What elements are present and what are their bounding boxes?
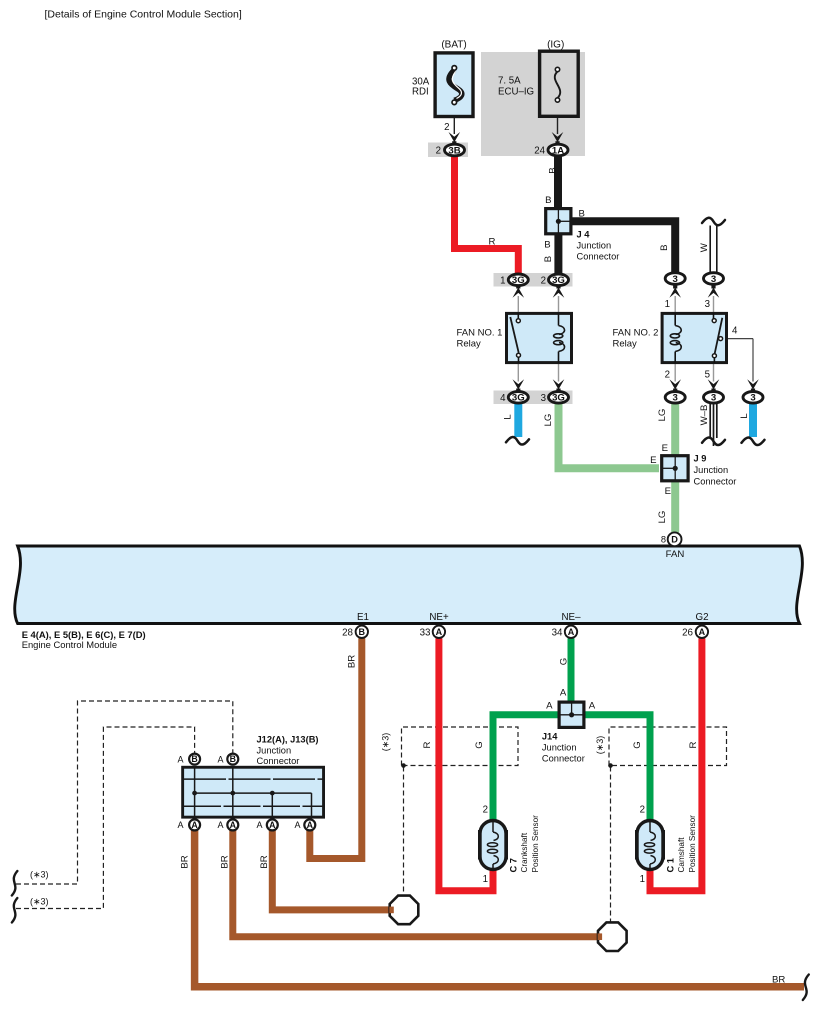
- svg-text:2: 2: [665, 370, 670, 381]
- svg-text:Junction: Junction: [694, 465, 729, 475]
- svg-text:R: R: [489, 237, 496, 248]
- svg-text:2: 2: [444, 122, 449, 133]
- svg-text:2: 2: [541, 276, 546, 287]
- svg-text:33: 33: [420, 628, 431, 639]
- svg-text:(IG): (IG): [547, 40, 564, 51]
- svg-text:Connector: Connector: [542, 754, 585, 764]
- svg-text:G: G: [632, 741, 643, 748]
- svg-text:BR: BR: [772, 974, 785, 985]
- svg-text:B: B: [545, 195, 551, 206]
- svg-text:BR: BR: [179, 855, 190, 868]
- svg-text:(∗3): (∗3): [30, 870, 49, 880]
- svg-text:BR: BR: [347, 655, 358, 668]
- svg-text:Position Sensor: Position Sensor: [688, 815, 697, 873]
- svg-text:3: 3: [711, 274, 716, 285]
- svg-text:B: B: [548, 167, 559, 173]
- svg-text:3: 3: [750, 393, 755, 404]
- svg-text:Junction: Junction: [542, 743, 577, 753]
- svg-text:C 1: C 1: [666, 858, 676, 872]
- svg-text:Relay: Relay: [613, 339, 638, 350]
- svg-text:L: L: [739, 413, 750, 419]
- svg-text:3B: 3B: [448, 145, 460, 156]
- svg-text:[Details of Engine Control Mod: [Details of Engine Control Module Sectio…: [45, 9, 242, 21]
- svg-text:3: 3: [673, 393, 678, 404]
- svg-text:D: D: [671, 534, 678, 544]
- svg-text:FAN NO. 2: FAN NO. 2: [613, 328, 659, 339]
- svg-text:A: A: [177, 820, 183, 830]
- svg-text:Position Sensor: Position Sensor: [531, 815, 540, 873]
- svg-text:BR: BR: [259, 855, 270, 868]
- svg-text:Crankshaft: Crankshaft: [520, 832, 529, 872]
- svg-text:5: 5: [705, 370, 710, 381]
- svg-text:28: 28: [342, 628, 353, 639]
- svg-text:3: 3: [705, 299, 710, 310]
- svg-text:E: E: [662, 443, 668, 454]
- svg-text:BR: BR: [220, 855, 231, 868]
- svg-text:3: 3: [711, 393, 716, 404]
- svg-text:24: 24: [534, 145, 545, 156]
- svg-text:G: G: [559, 658, 570, 665]
- svg-text:3G: 3G: [512, 393, 525, 404]
- svg-text:B: B: [230, 754, 236, 764]
- svg-text:4: 4: [500, 393, 506, 404]
- svg-text:(∗3): (∗3): [30, 897, 49, 907]
- svg-text:Connector: Connector: [257, 756, 300, 766]
- svg-text:A: A: [230, 820, 237, 830]
- svg-text:2: 2: [483, 805, 488, 816]
- svg-text:Junction: Junction: [577, 241, 612, 251]
- svg-text:G2: G2: [695, 612, 708, 623]
- svg-text:A: A: [191, 820, 198, 830]
- svg-text:J14: J14: [542, 732, 558, 742]
- svg-text:4: 4: [732, 326, 738, 337]
- svg-text:2: 2: [640, 805, 645, 816]
- svg-text:B: B: [659, 244, 670, 250]
- svg-text:NE–: NE–: [561, 612, 581, 623]
- svg-text:A: A: [436, 627, 443, 637]
- svg-text:26: 26: [682, 628, 693, 639]
- svg-text:A: A: [568, 627, 575, 637]
- svg-text:A: A: [217, 820, 223, 830]
- svg-text:1: 1: [640, 874, 645, 885]
- svg-text:G: G: [474, 741, 485, 748]
- svg-text:A: A: [699, 627, 706, 637]
- svg-text:A: A: [217, 754, 223, 764]
- svg-text:7. 5A: 7. 5A: [498, 76, 521, 87]
- svg-text:Engine Control Module: Engine Control Module: [22, 639, 117, 650]
- svg-text:J 9: J 9: [694, 454, 707, 464]
- svg-text:B: B: [544, 240, 550, 251]
- svg-text:RDI: RDI: [412, 87, 429, 98]
- svg-text:A: A: [256, 820, 262, 830]
- svg-text:3G: 3G: [512, 275, 525, 286]
- svg-text:A: A: [177, 754, 183, 764]
- svg-text:Connector: Connector: [577, 252, 620, 262]
- svg-text:2: 2: [436, 145, 441, 156]
- svg-text:3G: 3G: [552, 393, 565, 404]
- svg-text:3: 3: [673, 274, 678, 285]
- svg-text:ECU–IG: ECU–IG: [498, 87, 534, 98]
- svg-text:B: B: [579, 209, 585, 220]
- svg-text:Connector: Connector: [694, 477, 737, 487]
- svg-text:LG: LG: [657, 409, 668, 422]
- svg-text:A: A: [546, 701, 553, 712]
- svg-text:B: B: [543, 256, 554, 262]
- svg-text:LG: LG: [543, 414, 554, 427]
- svg-text:1: 1: [483, 874, 488, 885]
- svg-text:Relay: Relay: [457, 339, 482, 350]
- svg-text:3G: 3G: [552, 275, 565, 286]
- svg-text:FAN: FAN: [666, 549, 685, 560]
- svg-text:(∗3): (∗3): [380, 733, 390, 752]
- svg-text:J12(A), J13(B): J12(A), J13(B): [257, 735, 319, 745]
- svg-text:B: B: [359, 627, 366, 637]
- svg-text:B: B: [191, 754, 197, 764]
- svg-text:R: R: [422, 741, 433, 748]
- svg-text:A: A: [294, 820, 300, 830]
- svg-text:3: 3: [541, 393, 546, 404]
- svg-text:1: 1: [500, 276, 505, 287]
- svg-text:1: 1: [665, 299, 670, 310]
- svg-text:A: A: [560, 688, 567, 699]
- svg-text:W–B: W–B: [699, 405, 710, 426]
- svg-text:(∗3): (∗3): [595, 736, 605, 755]
- svg-text:(BAT): (BAT): [441, 40, 466, 51]
- svg-text:34: 34: [552, 628, 563, 639]
- svg-text:Junction: Junction: [257, 746, 292, 756]
- svg-text:C 7: C 7: [509, 858, 519, 872]
- svg-text:A: A: [307, 820, 314, 830]
- svg-text:1A: 1A: [552, 145, 564, 156]
- svg-text:A: A: [589, 701, 596, 712]
- svg-text:A: A: [269, 820, 276, 830]
- svg-text:E1: E1: [357, 612, 369, 623]
- svg-text:NE+: NE+: [429, 612, 449, 623]
- svg-text:W: W: [699, 242, 710, 252]
- svg-text:8: 8: [661, 535, 666, 545]
- svg-text:FAN NO. 1: FAN NO. 1: [457, 328, 503, 339]
- svg-text:E: E: [650, 455, 656, 466]
- svg-text:Camshaft: Camshaft: [677, 837, 686, 873]
- svg-text:LG: LG: [657, 511, 668, 524]
- svg-text:J 4: J 4: [577, 230, 591, 240]
- svg-text:R: R: [688, 741, 699, 748]
- svg-text:L: L: [502, 414, 513, 420]
- svg-text:E: E: [665, 486, 671, 497]
